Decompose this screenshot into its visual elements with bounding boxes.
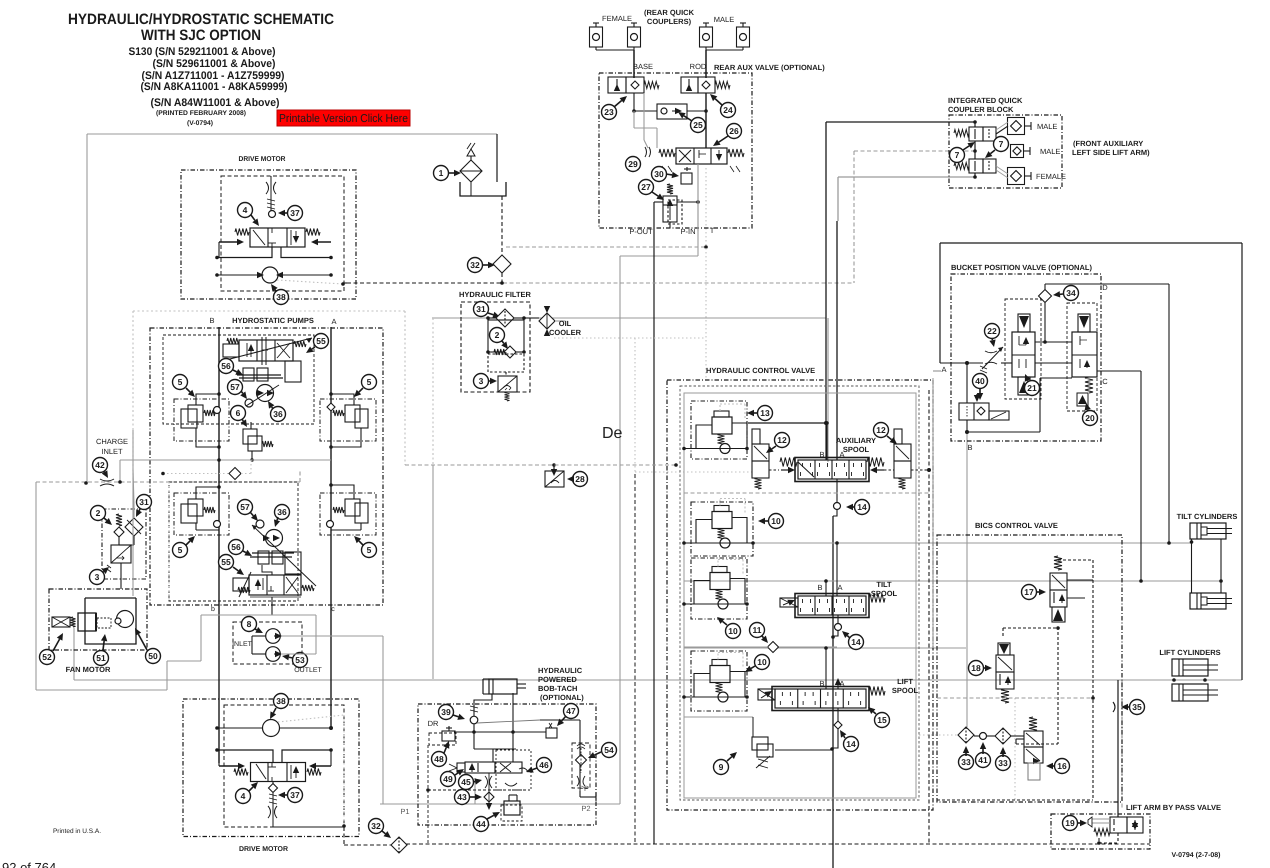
svg-text:FEMALE: FEMALE	[602, 14, 632, 23]
svg-text:POWERED: POWERED	[538, 675, 577, 684]
svg-text:56: 56	[231, 542, 241, 552]
svg-text:37: 37	[290, 790, 300, 800]
svg-text:38: 38	[276, 292, 286, 302]
svg-text:35: 35	[1132, 702, 1142, 712]
svg-text:7: 7	[999, 139, 1004, 149]
svg-text:A: A	[331, 317, 336, 326]
svg-text:4: 4	[241, 791, 246, 801]
svg-text:12: 12	[777, 435, 787, 445]
svg-text:B: B	[967, 443, 972, 452]
svg-text:CHARGE: CHARGE	[96, 437, 128, 446]
svg-text:45: 45	[461, 777, 471, 787]
svg-text:Printable Version Click Here: Printable Version Click Here	[279, 113, 408, 125]
svg-text:INTEGRATED QUICK: INTEGRATED QUICK	[948, 96, 1023, 105]
svg-text:21: 21	[1027, 383, 1037, 393]
svg-text:43: 43	[457, 792, 467, 802]
svg-text:PP: PP	[579, 784, 589, 793]
svg-text:MALE: MALE	[1037, 122, 1057, 131]
svg-text:10: 10	[757, 657, 767, 667]
svg-text:AUXILIARY: AUXILIARY	[836, 436, 876, 445]
svg-text:12: 12	[876, 425, 886, 435]
svg-text:S130 (S/N 529211001 & Above): S130 (S/N 529211001 & Above)	[129, 46, 276, 58]
svg-text:(PRINTED FEBRUARY 2008): (PRINTED FEBRUARY 2008)	[156, 110, 246, 117]
svg-text:(REAR QUICK: (REAR QUICK	[644, 8, 695, 17]
svg-text:2: 2	[495, 330, 500, 340]
svg-text:31: 31	[476, 304, 486, 314]
svg-text:5: 5	[178, 545, 183, 555]
svg-text:36: 36	[273, 409, 283, 419]
svg-text:14: 14	[851, 637, 861, 647]
svg-text:4: 4	[243, 205, 248, 215]
svg-text:Printed in U.S.A.: Printed in U.S.A.	[53, 828, 101, 835]
svg-text:LIFT ARM BY PASS VALVE: LIFT ARM BY PASS VALVE	[1126, 803, 1221, 812]
svg-text:30: 30	[654, 169, 664, 179]
svg-text:28: 28	[575, 474, 585, 484]
svg-text:40: 40	[975, 376, 985, 386]
svg-text:5: 5	[367, 377, 372, 387]
svg-text:25: 25	[693, 120, 703, 130]
svg-text:MALE: MALE	[1040, 147, 1060, 156]
svg-text:22: 22	[987, 326, 997, 336]
svg-text:5: 5	[178, 377, 183, 387]
svg-text:50: 50	[148, 651, 158, 661]
svg-text:V-0794 (2-7-08): V-0794 (2-7-08)	[1171, 851, 1220, 859]
svg-text:33: 33	[961, 757, 971, 767]
svg-text:9: 9	[719, 762, 724, 772]
svg-text:WITH SJC OPTION: WITH SJC OPTION	[141, 27, 261, 44]
svg-text:INLET: INLET	[232, 641, 253, 648]
svg-text:47: 47	[566, 706, 576, 716]
svg-text:(S/N 529611001 & Above): (S/N 529611001 & Above)	[153, 58, 276, 70]
svg-text:5: 5	[367, 545, 372, 555]
svg-text:P1: P1	[400, 807, 409, 816]
svg-text:29: 29	[628, 159, 638, 169]
svg-text:(FRONT AUXILIARY: (FRONT AUXILIARY	[1073, 139, 1143, 148]
svg-text:(S/N A84W11001 & Above): (S/N A84W11001 & Above)	[151, 97, 280, 109]
svg-text:3: 3	[479, 376, 484, 386]
svg-text:FEMALE: FEMALE	[1036, 172, 1066, 181]
svg-text:LEFT SIDE LIFT ARM): LEFT SIDE LIFT ARM)	[1072, 148, 1150, 157]
svg-text:B: B	[817, 583, 822, 592]
svg-text:BICS CONTROL VALVE: BICS CONTROL VALVE	[975, 521, 1058, 530]
svg-text:57: 57	[240, 502, 250, 512]
svg-text:20: 20	[1085, 413, 1095, 423]
svg-text:DRIVE MOTOR: DRIVE MOTOR	[239, 846, 288, 853]
svg-text:39: 39	[441, 707, 451, 717]
svg-text:1: 1	[439, 168, 444, 178]
svg-text:55: 55	[221, 557, 231, 567]
svg-text:HYDRAULIC CONTROL VALVE: HYDRAULIC CONTROL VALVE	[706, 366, 815, 375]
svg-text:32: 32	[371, 821, 381, 831]
svg-text:53: 53	[295, 655, 305, 665]
svg-text:ROD: ROD	[690, 62, 707, 71]
svg-text:19: 19	[1065, 818, 1075, 828]
svg-text:P-OUT: P-OUT	[629, 227, 653, 236]
svg-text:41: 41	[978, 755, 988, 765]
svg-text:HYDRAULIC: HYDRAULIC	[538, 666, 583, 675]
svg-text:P-IN: P-IN	[681, 227, 696, 236]
svg-text:37: 37	[290, 208, 300, 218]
svg-text:34: 34	[1066, 288, 1076, 298]
svg-text:BUCKET POSITION VALVE (OPTIONA: BUCKET POSITION VALVE (OPTIONAL)	[951, 263, 1092, 272]
svg-text:92 of 764: 92 of 764	[2, 860, 56, 868]
svg-text:46: 46	[539, 760, 549, 770]
svg-text:COUPLER BLOCK: COUPLER BLOCK	[948, 105, 1014, 114]
svg-text:OUTLET: OUTLET	[294, 667, 322, 674]
svg-text:TILT: TILT	[876, 580, 892, 589]
svg-text:15: 15	[877, 715, 887, 725]
svg-text:DR: DR	[428, 719, 439, 728]
svg-text:6: 6	[236, 408, 241, 418]
svg-text:FAN MOTOR: FAN MOTOR	[66, 665, 111, 674]
svg-text:REAR AUX VALVE (OPTIONAL): REAR AUX VALVE (OPTIONAL)	[714, 63, 825, 72]
svg-text:TILT CYLINDERS: TILT CYLINDERS	[1177, 512, 1238, 521]
svg-text:BOB-TACH: BOB-TACH	[538, 684, 577, 693]
svg-text:3: 3	[95, 572, 100, 582]
svg-text:27: 27	[641, 182, 651, 192]
svg-text:DRIVE MOTOR: DRIVE MOTOR	[239, 156, 286, 163]
svg-text:14: 14	[857, 502, 867, 512]
svg-text:42: 42	[95, 460, 105, 470]
svg-text:51: 51	[96, 653, 106, 663]
svg-text:56: 56	[221, 361, 231, 371]
svg-text:24: 24	[723, 105, 733, 115]
svg-text:26: 26	[729, 126, 739, 136]
svg-text:31: 31	[139, 497, 149, 507]
svg-text:13: 13	[760, 408, 770, 418]
svg-text:COUPLERS): COUPLERS)	[647, 17, 692, 26]
svg-text:54: 54	[604, 745, 614, 755]
svg-text:A: A	[941, 365, 946, 374]
svg-text:49: 49	[443, 774, 453, 784]
svg-text:SPOOL: SPOOL	[843, 445, 870, 454]
svg-text:COOLER: COOLER	[549, 328, 582, 337]
svg-text:P2: P2	[581, 804, 590, 813]
svg-text:INLET: INLET	[101, 447, 123, 456]
svg-text:b: b	[211, 605, 215, 613]
svg-text:16: 16	[1057, 761, 1067, 771]
svg-text:10: 10	[728, 626, 738, 636]
svg-text:LIFT CYLINDERS: LIFT CYLINDERS	[1159, 648, 1220, 657]
svg-text:32: 32	[470, 260, 480, 270]
svg-text:SPOOL: SPOOL	[892, 686, 919, 695]
svg-text:LIFT: LIFT	[897, 677, 913, 686]
svg-text:c: c	[331, 606, 335, 613]
svg-text:14: 14	[846, 739, 856, 749]
svg-text:2: 2	[96, 508, 101, 518]
svg-text:52: 52	[42, 652, 52, 662]
svg-text:10: 10	[771, 516, 781, 526]
svg-text:HYDRAULIC FILTER: HYDRAULIC FILTER	[459, 290, 532, 299]
svg-text:44: 44	[476, 819, 486, 829]
svg-text:8: 8	[247, 619, 252, 629]
svg-text:48: 48	[434, 754, 444, 764]
svg-text:11: 11	[753, 625, 762, 635]
svg-text:36: 36	[277, 507, 287, 517]
svg-text:55: 55	[316, 336, 326, 346]
svg-text:B: B	[209, 316, 214, 325]
svg-text:18: 18	[971, 663, 981, 673]
svg-text:HYDROSTATIC PUMPS: HYDROSTATIC PUMPS	[232, 316, 314, 325]
svg-text:(V-0794): (V-0794)	[187, 120, 213, 127]
svg-text:De: De	[602, 425, 623, 442]
svg-text:HYDRAULIC/HYDROSTATIC SCHEMATI: HYDRAULIC/HYDROSTATIC SCHEMATIC	[68, 11, 334, 28]
svg-text:38: 38	[276, 696, 286, 706]
svg-text:MALE: MALE	[714, 15, 734, 24]
svg-text:A: A	[837, 583, 842, 592]
svg-text:57: 57	[230, 382, 240, 392]
svg-text:23: 23	[604, 107, 614, 117]
svg-text:C: C	[1102, 377, 1108, 386]
svg-text:(OPTIONAL): (OPTIONAL)	[540, 693, 584, 702]
svg-text:OIL: OIL	[559, 319, 572, 328]
svg-text:T: T	[710, 226, 715, 235]
svg-text:33: 33	[998, 758, 1008, 768]
svg-text:BASE: BASE	[633, 62, 653, 71]
svg-text:(S/N A8KA11001 - A8KA59999): (S/N A8KA11001 - A8KA59999)	[141, 81, 288, 93]
svg-text:7: 7	[955, 150, 960, 160]
svg-text:17: 17	[1024, 587, 1034, 597]
